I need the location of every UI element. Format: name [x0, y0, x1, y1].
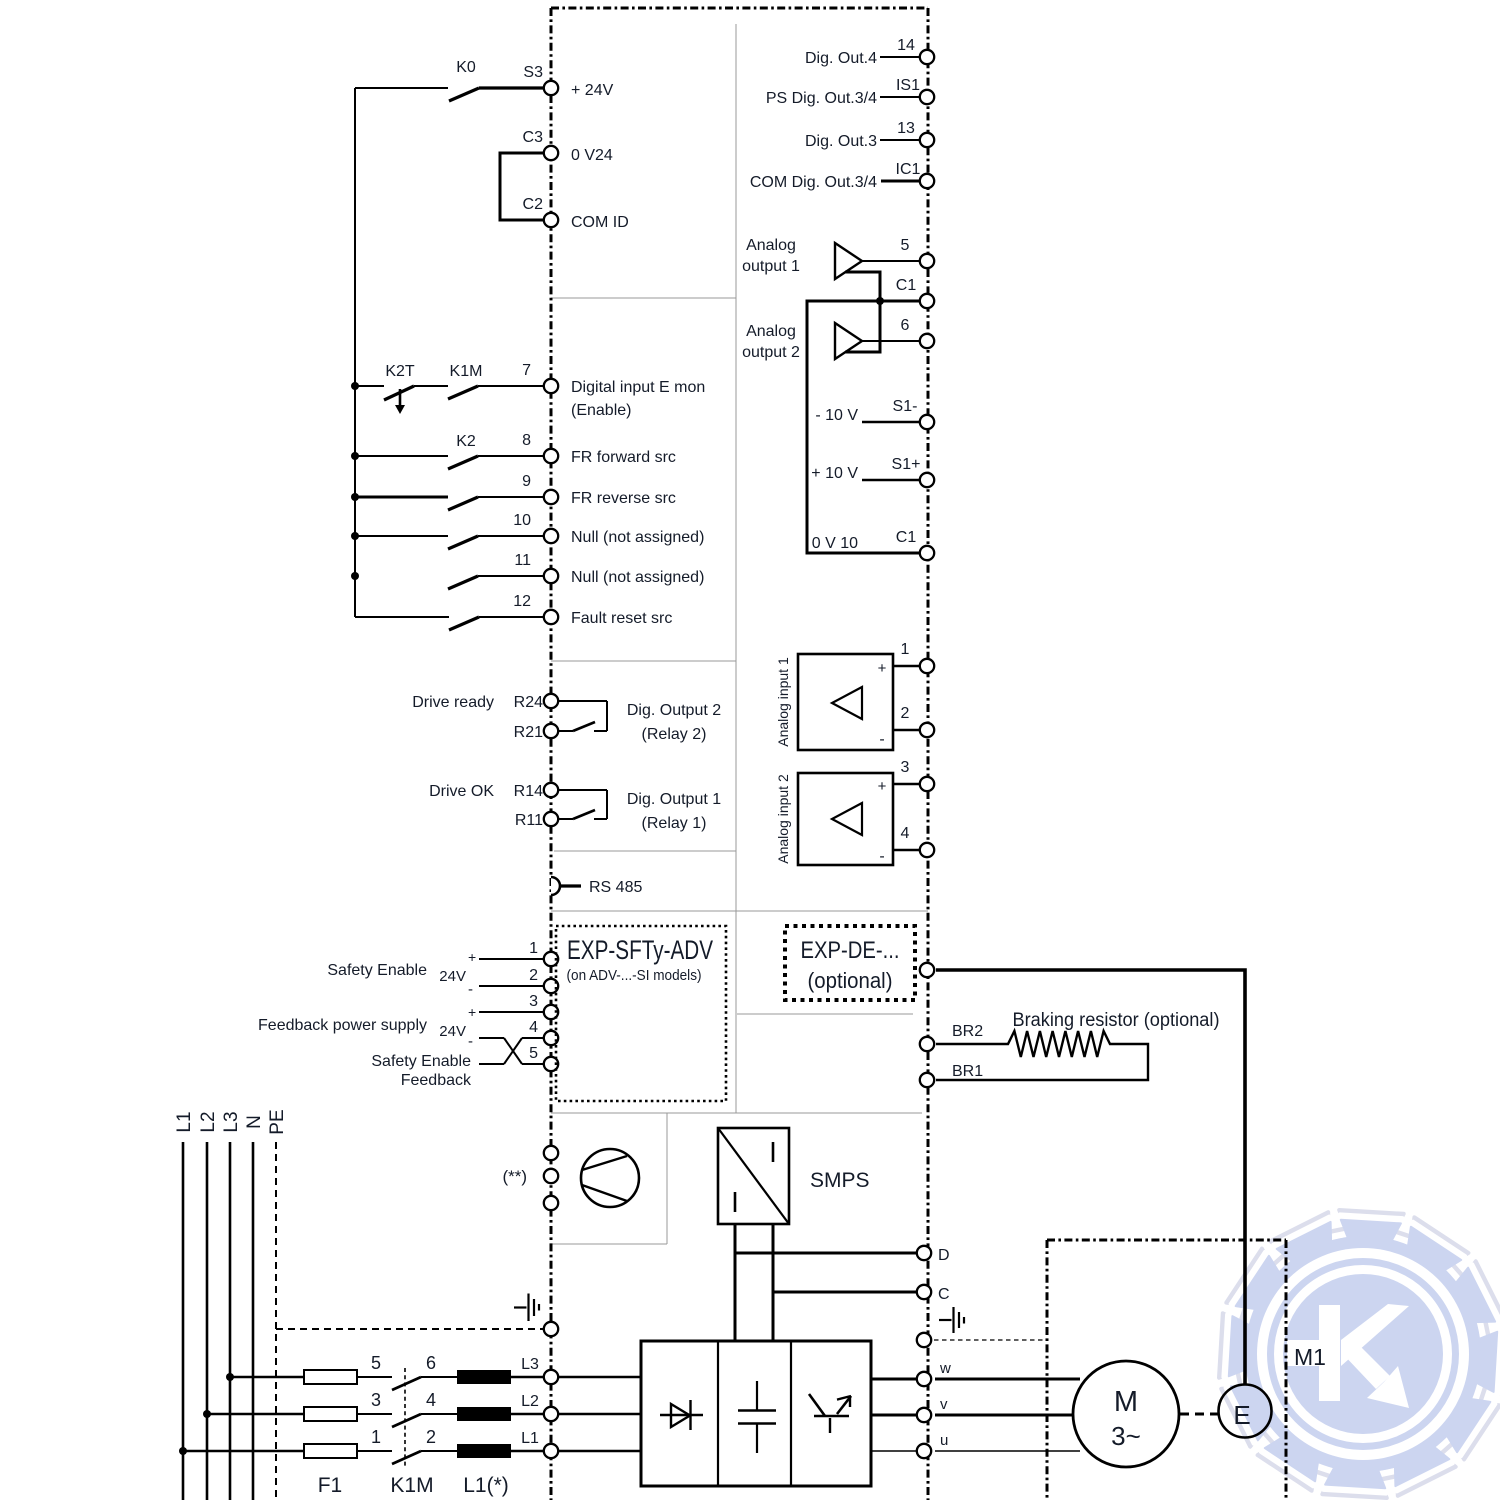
wire L3 vertical [229, 1142, 232, 1500]
fuse label F1 [318, 1474, 343, 1497]
switch row11 [448, 576, 478, 589]
svg-text:R11: R11 [515, 812, 543, 829]
svg-text:Analog: Analog [746, 323, 796, 340]
svg-text:7: 7 [522, 362, 531, 379]
svg-text:Dig. Output 2: Dig. Output 2 [627, 702, 721, 719]
node 4 ai [901, 825, 935, 857]
svg-text:Analog: Analog [746, 237, 796, 254]
node aux2 [544, 1169, 558, 1183]
svg-text:IC1: IC1 [896, 161, 921, 178]
node aux1 [544, 1146, 558, 1160]
node S1+ [892, 456, 935, 487]
label feedback power supply [258, 1004, 476, 1050]
svg-text:5: 5 [529, 1045, 538, 1062]
wire row12b [479, 616, 543, 618]
module EXP-DE box [785, 926, 915, 1000]
svg-text:-: - [468, 1033, 473, 1050]
node 4 exp [529, 1019, 558, 1045]
node C1 out [896, 277, 934, 308]
inverter igbt symbol [809, 1394, 851, 1433]
node 3 exp [529, 993, 558, 1019]
wire +24V supply bus [355, 88, 448, 617]
node 1 ai [901, 641, 935, 673]
svg-text:SMPS: SMPS [810, 1169, 870, 1192]
svg-text:-: - [879, 848, 884, 865]
wire row12 [355, 616, 449, 618]
node 12 fault reset [513, 593, 672, 627]
junction row7 [351, 382, 359, 390]
node BR2 [920, 1023, 983, 1051]
svg-text:- 10 V: - 10 V [815, 407, 858, 424]
wire L2 vertical [206, 1142, 209, 1500]
svg-text:BR2: BR2 [952, 1023, 983, 1040]
svg-text:Feedback: Feedback [401, 1072, 472, 1089]
module analog input 1 [775, 654, 893, 750]
label M1 [1294, 1344, 1326, 1370]
wire smps right [772, 1224, 775, 1341]
svg-text:3: 3 [371, 1390, 381, 1410]
svg-text:L2: L2 [198, 1111, 219, 1132]
svg-text:(**): (**) [502, 1167, 527, 1186]
svg-text:Braking resistor (optional): Braking resistor (optional) [1013, 1010, 1220, 1031]
wire safety1 [479, 958, 543, 960]
switch K2T timed contact [384, 363, 415, 414]
svg-text:(Relay 1): (Relay 1) [642, 815, 707, 832]
contactor K1M linkage [390, 1368, 433, 1497]
node C2 COM ID [523, 196, 629, 231]
svg-text:Fault reset src: Fault reset src [571, 610, 672, 627]
node S1- [893, 398, 935, 429]
node L3 in [544, 1370, 641, 1384]
svg-text:Safety Enable: Safety Enable [371, 1053, 471, 1070]
svg-text:1: 1 [529, 940, 538, 957]
node 9 FR reverse [522, 473, 676, 507]
label +10V [811, 465, 919, 482]
wire row7b [414, 385, 448, 387]
resistor braking [936, 1031, 1148, 1080]
wire U [871, 1450, 1080, 1452]
svg-text:S3: S3 [523, 64, 543, 81]
svg-text:output 1: output 1 [742, 258, 800, 275]
node exp-de out [920, 963, 934, 977]
power phase row L2 [203, 1390, 543, 1427]
svg-text:K2: K2 [456, 433, 476, 450]
wire L1 vertical [182, 1142, 185, 1500]
ground right [939, 1307, 964, 1333]
label analog output 2 [742, 323, 800, 361]
node 1 exp [529, 940, 558, 966]
svg-text:output 2: output 2 [742, 344, 800, 361]
relay 1 contact [559, 790, 607, 819]
node 5 exp [529, 1045, 558, 1071]
label relay1 [627, 791, 721, 832]
svg-text:12: 12 [513, 593, 531, 610]
decorative watermark gear logo [1219, 1210, 1500, 1498]
svg-text:+ 24V: + 24V [571, 82, 614, 99]
node 6 out [901, 317, 935, 348]
svg-text:8: 8 [522, 432, 531, 449]
ground left [514, 1294, 539, 1322]
svg-text:13: 13 [897, 120, 915, 137]
svg-text:v: v [940, 1396, 948, 1413]
svg-text:R21: R21 [514, 724, 543, 741]
svg-text:11: 11 [514, 552, 531, 569]
svg-text:(optional): (optional) [808, 968, 893, 993]
label L1 phase [174, 1111, 195, 1132]
switch row10 [448, 536, 478, 549]
wire ai2 minus [893, 849, 919, 852]
svg-text:L1: L1 [521, 1430, 539, 1447]
svg-text:5: 5 [371, 1353, 381, 1373]
wire pe dashed [276, 1328, 543, 1330]
svg-text:4: 4 [901, 825, 910, 842]
dc link capacitor [738, 1381, 776, 1453]
node 13 dig out 3 [805, 120, 934, 150]
wire row7c [478, 385, 543, 387]
node V [917, 1396, 948, 1422]
wire C [773, 1291, 919, 1294]
svg-text:Drive ready: Drive ready [412, 694, 494, 711]
rectifier diode [660, 1400, 703, 1430]
svg-text:3: 3 [529, 993, 538, 1010]
svg-text:(Enable): (Enable) [571, 402, 631, 419]
svg-text:4: 4 [426, 1390, 436, 1410]
wire C1 common [807, 297, 919, 553]
svg-text:1: 1 [901, 641, 910, 658]
svg-text:M1: M1 [1294, 1344, 1326, 1370]
wire safety3 [479, 1011, 543, 1013]
wire row10b [478, 535, 543, 537]
svg-text:EXP-SFTy-ADV: EXP-SFTy-ADV [567, 935, 713, 965]
svg-text:0 V 10: 0 V 10 [812, 535, 858, 552]
node D [917, 1246, 950, 1264]
module SMPS [718, 1128, 870, 1224]
svg-text:C1: C1 [896, 529, 917, 546]
power phase row L1 [179, 1427, 543, 1464]
module EXP-SFTy-ADV box [556, 926, 726, 1101]
svg-text:K1M: K1M [450, 363, 483, 380]
wire ai1 plus [893, 665, 919, 668]
svg-text:M: M [1114, 1386, 1138, 1418]
switch K2 [448, 433, 478, 469]
wire V [871, 1414, 1074, 1417]
node S3 +24V [523, 64, 613, 99]
wire D [735, 1252, 919, 1255]
node pe left [544, 1322, 558, 1336]
svg-text:3~: 3~ [1111, 1421, 1141, 1451]
label PE [267, 1109, 288, 1134]
svg-text:2: 2 [529, 967, 538, 984]
node 8 FR forward [522, 432, 676, 466]
label analog output 1 [742, 237, 800, 275]
relay 2 contact [559, 701, 607, 731]
svg-text:F1: F1 [318, 1474, 343, 1497]
port RS 485 [551, 877, 642, 896]
svg-text:PS Dig. Out.3/4: PS Dig. Out.3/4 [766, 90, 877, 107]
svg-text:24V: 24V [439, 1023, 466, 1040]
label starstar [502, 1167, 527, 1186]
switch row9 [448, 497, 478, 510]
svg-text:6: 6 [901, 317, 910, 334]
svg-text:Feedback power supply: Feedback power supply [258, 1017, 427, 1034]
wire row8b [478, 455, 543, 457]
svg-text:C3: C3 [523, 129, 544, 146]
svg-text:N: N [244, 1115, 265, 1129]
svg-text:RS 485: RS 485 [589, 879, 642, 896]
svg-text:6: 6 [426, 1353, 436, 1373]
wire smps left [734, 1224, 737, 1341]
label relay2 [627, 702, 721, 743]
svg-text:9: 9 [522, 473, 531, 490]
motor M1 dash-dot box [1047, 1240, 1286, 1500]
drive enclosure dash-dot border [551, 8, 928, 1500]
svg-text:EXP-DE-...: EXP-DE-... [801, 937, 900, 964]
node W [917, 1360, 951, 1386]
encoder E [1219, 1385, 1272, 1438]
wire row10 [355, 535, 448, 537]
node C dc [917, 1285, 950, 1303]
svg-text:FR forward src: FR forward src [571, 449, 676, 466]
label L2 phase [198, 1111, 219, 1132]
label braking resistor [1013, 1010, 1220, 1031]
wire gnd to motor frame [934, 1339, 1046, 1341]
svg-text:10: 10 [513, 512, 531, 529]
svg-text:IS1: IS1 [896, 77, 920, 94]
wire row11 [478, 575, 543, 577]
wire motor-encoder dashed [1180, 1413, 1218, 1416]
module analog input 2 [775, 773, 893, 865]
svg-text:PE: PE [267, 1109, 288, 1134]
node 7 digital input [522, 362, 705, 419]
node IC1 [750, 161, 934, 191]
inductor label L1(*) [463, 1474, 509, 1497]
svg-text:L2: L2 [521, 1393, 539, 1410]
node gnd right [917, 1333, 931, 1347]
svg-text:D: D [938, 1247, 950, 1264]
svg-text:2: 2 [426, 1427, 436, 1447]
motor M 3~ [1073, 1361, 1179, 1467]
svg-text:K0: K0 [456, 59, 476, 76]
svg-text:1: 1 [371, 1427, 381, 1447]
wire PE vertical [275, 1142, 277, 1500]
svg-text:+ 10 V: + 10 V [811, 465, 858, 482]
fan symbol [581, 1149, 639, 1207]
node 2 ai [901, 705, 935, 737]
node IS1 [766, 77, 934, 107]
wire row7 [355, 385, 384, 387]
wire row8 [355, 455, 448, 457]
svg-text:w: w [939, 1360, 951, 1377]
svg-text:+: + [878, 660, 887, 677]
node 5 out [901, 237, 935, 268]
svg-text:R14: R14 [514, 783, 543, 800]
node BR1 [920, 1063, 983, 1087]
svg-text:L1(*): L1(*) [463, 1474, 509, 1497]
svg-text:Safety Enable: Safety Enable [327, 962, 427, 979]
svg-text:Dig. Out.4: Dig. Out.4 [805, 50, 877, 67]
node R21 [514, 724, 559, 741]
junction row9 [351, 493, 359, 501]
svg-text:S1+: S1+ [892, 456, 921, 473]
wire safety4 crossover [479, 1038, 543, 1064]
svg-text:FR reverse src: FR reverse src [571, 490, 676, 507]
svg-text:0 V24: 0 V24 [571, 147, 613, 164]
svg-text:R24: R24 [514, 694, 543, 711]
label L3 phase [221, 1111, 242, 1132]
svg-text:Null (not assigned): Null (not assigned) [571, 529, 704, 546]
node R11 [515, 812, 558, 829]
node L1 in [544, 1444, 641, 1458]
node U [917, 1432, 949, 1458]
svg-text:Digital input E mon: Digital input E mon [571, 379, 705, 396]
node C1 bottom [896, 529, 934, 560]
node C3 0V24 [523, 129, 613, 164]
node R14 [514, 783, 559, 800]
svg-text:L1: L1 [174, 1111, 195, 1132]
svg-text:K1M: K1M [390, 1474, 433, 1497]
node 11 null [514, 552, 704, 586]
label drive OK [429, 783, 494, 800]
svg-text:Analog input 2: Analog input 2 [775, 774, 791, 864]
svg-text:COM ID: COM ID [571, 214, 629, 231]
svg-text:+: + [878, 778, 887, 795]
svg-text:Drive OK: Drive OK [429, 783, 494, 800]
svg-text:5: 5 [901, 237, 910, 254]
label safety enable [327, 949, 476, 998]
svg-text:Dig. Output 1: Dig. Output 1 [627, 791, 721, 808]
wire ai2 plus [893, 783, 919, 786]
switch K0 [449, 59, 543, 101]
node 14 dig out 4 [805, 37, 934, 67]
svg-text:-: - [879, 731, 884, 748]
node L2 in [544, 1407, 641, 1421]
svg-text:Null (not assigned): Null (not assigned) [571, 569, 704, 586]
svg-text:C: C [938, 1286, 950, 1303]
wire row9b [478, 496, 543, 498]
jumper wire C3-C2 [500, 153, 544, 220]
wire encoder feedback [936, 970, 1245, 1384]
wire safety2 [479, 985, 543, 987]
svg-text:S1-: S1- [893, 398, 918, 415]
junction row10 [351, 532, 359, 540]
node R24 [514, 694, 559, 711]
svg-text:E: E [1233, 1400, 1250, 1430]
svg-text:L3: L3 [221, 1111, 242, 1132]
svg-text:COM Dig. Out.3/4: COM Dig. Out.3/4 [750, 174, 877, 191]
label N [244, 1115, 265, 1129]
svg-text:4: 4 [529, 1019, 538, 1036]
junction row8 [351, 452, 359, 460]
svg-text:Dig. Out.3: Dig. Out.3 [805, 133, 877, 150]
svg-text:(on ADV-...-SI models): (on ADV-...-SI models) [567, 967, 702, 984]
svg-text:C2: C2 [523, 196, 544, 213]
wire W [871, 1378, 1080, 1381]
wire ai1 minus [893, 729, 919, 732]
node 3 ai [901, 759, 935, 791]
svg-text:14: 14 [897, 37, 915, 54]
converter block [641, 1341, 871, 1486]
svg-text:Analog input 1: Analog input 1 [775, 657, 791, 747]
wire N vertical [252, 1142, 255, 1500]
amplifier analog out 1 [835, 243, 919, 302]
junction row11 [351, 572, 359, 580]
wire row9 [355, 496, 448, 499]
svg-text:L3: L3 [521, 1356, 539, 1373]
svg-text:+: + [468, 949, 476, 965]
label safety enable feedback [371, 1053, 472, 1089]
internal section separator lines [551, 24, 928, 1244]
node 10 null [513, 512, 704, 546]
svg-text:K2T: K2T [385, 363, 415, 380]
svg-text:+: + [468, 1004, 476, 1020]
svg-text:-: - [468, 981, 473, 998]
amplifier analog out 2 [835, 300, 919, 359]
label -10V [815, 407, 919, 424]
switch row12 [449, 617, 479, 630]
svg-text:u: u [940, 1432, 948, 1449]
node aux3 [544, 1196, 558, 1210]
power phase row L3 [226, 1353, 543, 1390]
svg-text:(Relay 2): (Relay 2) [642, 726, 707, 743]
svg-text:2: 2 [901, 705, 910, 722]
node 2 exp [529, 967, 558, 993]
svg-text:BR1: BR1 [952, 1063, 983, 1080]
svg-text:3: 3 [901, 759, 910, 776]
switch K1M row7 [448, 363, 482, 399]
svg-text:24V: 24V [439, 968, 466, 985]
svg-text:C1: C1 [896, 277, 917, 294]
label drive ready [412, 694, 494, 711]
label 0V10 [812, 535, 858, 552]
